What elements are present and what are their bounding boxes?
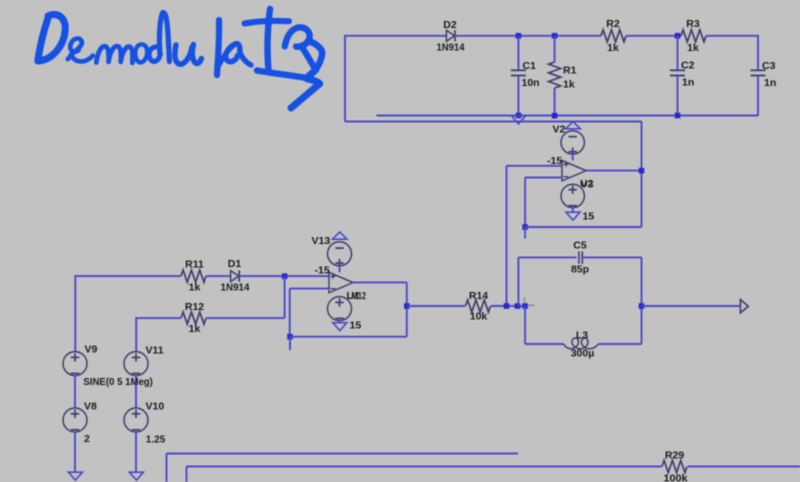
svg-text:1N914: 1N914 [437, 42, 465, 54]
wire U1 output [353, 281, 407, 283]
ground below V10 [129, 472, 143, 480]
voltage source V13 [328, 242, 352, 267]
capacitor C2 [670, 70, 685, 75]
svg-text:1N914: 1N914 [221, 282, 250, 294]
label -15 for V13 [315, 265, 330, 277]
handwriting letter d stem [159, 12, 169, 61]
voltage source V11 [124, 352, 148, 376]
label R12 [185, 301, 204, 313]
node U1 output to R14 junction [404, 303, 410, 309]
svg-text:R1: R1 [563, 65, 577, 77]
node ground rail junction [516, 113, 522, 119]
label 100k for R29 [664, 473, 688, 482]
wire C2 top lead [677, 36, 679, 71]
overlapping labels U1 LM12 [347, 290, 367, 302]
wire V11 to V10 [135, 376, 137, 408]
svg-text:R3: R3 [686, 18, 700, 30]
node C2 bottom junction [675, 113, 681, 119]
node tank junction middle [515, 303, 521, 309]
wire tank node to U2 input vertical [506, 166, 508, 306]
label 1k for R3 [687, 42, 699, 54]
wire V11 to R12 [136, 317, 181, 319]
label D1 [228, 258, 242, 270]
label R2 [606, 18, 620, 30]
wire U1 feedback bottom [290, 336, 407, 338]
handwriting letter l [217, 20, 219, 75]
label V2 [553, 123, 566, 135]
diode D2 [446, 30, 455, 41]
label 85p for C5 [571, 263, 589, 275]
label SINE(0 5 1Meg) for V9 [83, 376, 152, 388]
voltage source V2 [561, 131, 584, 156]
wire input left vertical [344, 35, 346, 122]
handwriting letter u [175, 45, 202, 65]
wire V9 top vertical [74, 275, 76, 351]
svg-text:1k: 1k [607, 42, 619, 54]
node C1 top junction [516, 33, 522, 39]
wire U1 feedback right vertical [406, 282, 408, 336]
wire bottom stub left vertical [166, 454, 168, 482]
label V10 [146, 401, 165, 413]
handwriting letter s zigzag [291, 70, 320, 108]
voltage source V10 [124, 408, 148, 432]
wire R1 bottom lead [554, 88, 556, 116]
wire tank right vertical [641, 257, 643, 344]
wire R2 to R3 [626, 35, 681, 37]
resistor R12 [181, 312, 206, 324]
label R14 [469, 290, 488, 302]
svg-text:-15: -15 [547, 155, 562, 167]
handwriting letter s arc [309, 42, 322, 71]
ground below V12 [333, 323, 347, 331]
voltage source V12 [328, 297, 352, 321]
svg-text:100k: 100k [664, 473, 688, 482]
wire bottom upper horizontal [167, 453, 519, 455]
svg-text:R11: R11 [185, 259, 204, 271]
handwriting stroke e exit [301, 46, 316, 70]
svg-text:C3: C3 [762, 60, 776, 72]
wire R14 to tank node [491, 305, 525, 307]
label V8 [84, 401, 97, 413]
wire V8 to ground [74, 432, 76, 472]
wire U2 feedback bottom [525, 226, 641, 228]
overlapping labels U2 V3 [580, 178, 594, 191]
svg-text:V3: V3 [581, 179, 594, 191]
handwriting letter t stem [268, 9, 270, 70]
label R11 [185, 259, 204, 271]
svg-text:-15: -15 [315, 265, 330, 277]
handwriting letter t crossbar [245, 21, 290, 24]
voltage source V3 [561, 184, 584, 207]
wire V2 to U2 supply [572, 154, 574, 161]
capacitor C5 [579, 251, 582, 264]
wire L3 branch bottom right [599, 343, 642, 345]
svg-text:D2: D2 [443, 19, 457, 31]
handwriting letter o [135, 44, 147, 62]
svg-text:85p: 85p [571, 263, 589, 275]
wire U2 inverting vertical [524, 178, 526, 228]
node tank junction left [504, 303, 510, 309]
resistor R1 [549, 62, 561, 88]
svg-text:C1: C1 [523, 60, 537, 72]
label 1.25 for V10 [146, 434, 166, 446]
svg-text:1.25: 1.25 [146, 434, 166, 446]
output port arrow [740, 300, 748, 313]
voltage source V9 [63, 352, 87, 376]
wire C1 top lead [517, 36, 519, 71]
label 15 for V3 [583, 211, 595, 223]
wire lower return rail [345, 121, 642, 123]
svg-text:15: 15 [583, 211, 595, 223]
label 1N914 for D1 [221, 282, 250, 294]
svg-text:1k: 1k [687, 42, 699, 54]
resistor R11 [181, 270, 206, 282]
svg-text:10k: 10k [470, 310, 488, 322]
capacitor C1 [511, 70, 526, 75]
wire C5 branch top left [518, 256, 576, 258]
wire D1 to U1 input [239, 275, 329, 277]
label 1k for R12 [189, 323, 201, 335]
svg-text:V2: V2 [553, 123, 566, 135]
wire V12 to ground [339, 321, 341, 323]
wire top rail from input corner to D2 [345, 35, 446, 37]
resistor R14 [466, 300, 491, 312]
svg-text:V11: V11 [146, 345, 164, 357]
label C1 [523, 60, 537, 72]
wire U1 feedback stub [289, 337, 291, 351]
label L3 [576, 330, 588, 342]
svg-text:1n: 1n [764, 77, 776, 89]
svg-text:10n: 10n [522, 77, 540, 89]
wire tank to output port [642, 305, 741, 307]
label -15 for V2 [547, 155, 562, 167]
wire R3 to C3 corner [706, 35, 758, 37]
label R1 [563, 65, 577, 77]
wire R12 to junction [206, 317, 285, 319]
label R29 [665, 450, 684, 462]
wire right vertical to U2 output [641, 122, 643, 228]
wire R1 top lead [554, 36, 556, 62]
label V9 [85, 343, 98, 355]
resistor R29 [662, 460, 687, 472]
op-amp U2 [562, 160, 586, 181]
handwriting letter e [68, 38, 93, 61]
resistor R2 [601, 30, 626, 42]
svg-text:V8: V8 [84, 401, 97, 413]
svg-text:R29: R29 [665, 450, 684, 462]
op-amp U1 [329, 272, 353, 293]
svg-text:L3: L3 [576, 330, 588, 342]
svg-text:1k: 1k [189, 323, 201, 335]
handwriting letter m [96, 46, 132, 63]
svg-text:C2: C2 [681, 60, 695, 72]
wire U2 feedback stub [524, 227, 526, 239]
wire U2 noninverting input [507, 165, 563, 167]
svg-text:R12: R12 [185, 301, 204, 313]
label C2 [681, 60, 695, 72]
label C5 [573, 240, 587, 252]
wire bottom lower horizontal to R29 [187, 466, 662, 468]
ground below V8 [68, 472, 82, 480]
label 300u for L3 [571, 348, 595, 360]
node C2 top junction [675, 33, 681, 39]
node tank junction right [522, 303, 528, 309]
wire C2 bottom lead [677, 76, 679, 116]
wire V10 to ground [135, 432, 137, 472]
wire L3 branch left vertical [524, 306, 526, 344]
label 1n for C2 [682, 77, 694, 89]
wire filter ground rail [377, 115, 759, 117]
wire U2 output [586, 170, 642, 172]
wire L3 branch bottom left [525, 343, 564, 345]
label 15 for V12 [350, 320, 362, 332]
svg-text:R2: R2 [606, 18, 620, 30]
node U1 feedback junction [287, 334, 293, 340]
label V13 [312, 235, 331, 247]
svg-text:LM12: LM12 [347, 290, 366, 302]
wire C5 branch left vertical [517, 257, 519, 306]
wire U1 feedback left [290, 288, 329, 290]
node U2 output junction [639, 168, 645, 174]
label 1k for R2 [607, 42, 619, 54]
label 2 for V8 [84, 433, 90, 445]
node tank output junction [639, 303, 645, 309]
wire C1 bottom lead [517, 76, 519, 116]
svg-text:V13: V13 [312, 235, 331, 247]
handwriting bottom stroke [257, 71, 304, 78]
node U2 feedback junction [522, 224, 528, 230]
wire V13 to U1 supply [339, 266, 341, 273]
wire junction down to R12 [284, 276, 286, 318]
label 1k for R1 [563, 79, 575, 91]
label 1n for C3 [764, 77, 776, 89]
svg-text:C5: C5 [573, 240, 587, 252]
label D2 [443, 19, 457, 31]
svg-text:1k: 1k [563, 79, 575, 91]
node R11 D1 R12 junction [282, 273, 288, 279]
wire C5 branch top right [581, 256, 642, 258]
wire U1 feedback left vertical [289, 289, 291, 337]
handwriting letter e final [285, 27, 310, 46]
svg-text:V10: V10 [146, 401, 165, 413]
svg-text:2: 2 [84, 433, 90, 445]
wire U2 inverting input [525, 177, 562, 179]
grey anchor cross at tank node [525, 297, 535, 305]
wire bottom lower left vertical [186, 467, 188, 482]
handwritten annotation Demodulate [38, 9, 322, 108]
svg-text:1n: 1n [682, 77, 694, 89]
diode D1 [231, 270, 240, 281]
wire V11 top vertical [135, 317, 137, 351]
wire R11 to D1 [206, 275, 231, 277]
label V11 [146, 345, 164, 357]
svg-text:D1: D1 [228, 258, 242, 270]
handwriting letter d loop [149, 47, 160, 62]
node R1 bottom junction [552, 113, 558, 119]
label 1N914 for D2 [437, 42, 465, 54]
wire R29 to right edge [688, 466, 800, 468]
ground symbol on filter rail [512, 116, 526, 124]
wire U1 output junction to R14 [407, 305, 465, 307]
handwriting letter D [38, 15, 65, 61]
svg-text:SINE(0 5 1Meg): SINE(0 5 1Meg) [83, 376, 152, 388]
label 10n for C1 [522, 77, 540, 89]
resistor R3 [681, 30, 706, 42]
wire D2 cathode to R2 [455, 35, 601, 37]
label 10k for R14 [470, 310, 488, 322]
svg-text:300µ: 300µ [571, 348, 595, 360]
ground below V3 [566, 212, 580, 220]
svg-text:V9: V9 [85, 343, 98, 355]
voltage source V8 [63, 408, 87, 432]
node R1 top junction [552, 33, 558, 39]
label 1k for R11 [189, 282, 201, 294]
svg-text:R14: R14 [469, 290, 488, 302]
label R3 [686, 18, 700, 30]
wire C3 bottom lead [757, 76, 759, 116]
wire V3 to ground [572, 208, 574, 212]
handwriting letter a [217, 44, 251, 69]
wire V9 to V8 [74, 376, 76, 408]
power flag above V13 [332, 232, 347, 239]
capacitor C3 [751, 70, 766, 75]
label C3 [762, 60, 776, 72]
svg-text:1k: 1k [189, 282, 201, 294]
inductor L3 [564, 338, 599, 349]
wire C3 top lead [757, 35, 759, 70]
svg-text:15: 15 [350, 320, 362, 332]
power flag above V2 [566, 122, 581, 129]
wire V9 to R11 [75, 275, 181, 277]
